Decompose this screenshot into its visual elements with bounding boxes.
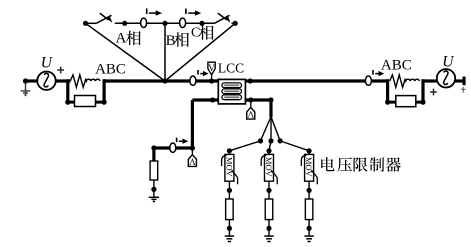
wire: left branch to resistor <box>152 148 155 161</box>
node: lower bus left of LCC <box>210 97 215 102</box>
current sensor CT5 (left branch) <box>170 143 176 152</box>
node: R2 ground node <box>151 187 156 192</box>
node: MOV2-resistor node <box>266 188 271 193</box>
current sensor CT2 (C-phase) <box>180 18 186 27</box>
node: lower bus V2 tap <box>248 97 253 102</box>
wire: B-phase fan lead <box>164 23 166 81</box>
svg-text:C: C <box>191 26 200 41</box>
node: MOV1-resistor node <box>227 188 232 193</box>
arrester MOV1 (metal-oxide varistor) <box>222 154 238 184</box>
arrester MOV3 (metal-oxide varistor) <box>301 154 317 184</box>
wire: lower bus left of LCC <box>192 98 218 101</box>
wire: lower bus right of LCC <box>245 98 271 101</box>
wire: source U1 to left node bar <box>56 79 71 82</box>
ac source U2 <box>437 69 455 87</box>
ground (left branch) <box>149 189 159 201</box>
LCC converter box <box>218 79 245 104</box>
svg-text:ABC: ABC <box>381 57 412 73</box>
wire: main bus left section <box>104 79 218 82</box>
ac source U1 <box>37 72 55 90</box>
node: branch 2 ground node <box>266 226 271 231</box>
node: left lower branch right corner <box>102 100 107 105</box>
node: lower bus right corner <box>268 97 273 102</box>
wire: MOV1 top stub <box>228 151 230 155</box>
wire: right node bar to source U2 <box>423 79 437 82</box>
switch S1 (A-phase) <box>96 13 112 23</box>
svg-text:LCC: LCC <box>218 61 244 76</box>
node: top line right end <box>233 21 238 26</box>
svg-text:A: A <box>116 31 127 47</box>
wire: diagonal to MOV3 <box>280 141 309 151</box>
voltage probe V3 (up, left branch) <box>188 150 196 167</box>
wire: diagonal to MOV1 <box>229 141 260 151</box>
wire: R5 to ground node <box>308 220 310 229</box>
node: top line after S1 <box>122 21 127 26</box>
node: branch 3 ground node <box>307 226 312 231</box>
wire: MOV3 top stub <box>308 151 310 155</box>
node: fan dot middle <box>268 138 273 143</box>
wire: node to R3 <box>228 190 230 199</box>
wire: MOV1 to node <box>228 181 230 190</box>
resistor R5 (branch 3) <box>305 199 313 220</box>
node: right lower branch left corner <box>385 100 390 105</box>
wire: left branch vertical drop <box>191 100 194 150</box>
svg-text:U: U <box>41 54 54 71</box>
current arrow label I (CT4) <box>373 70 384 76</box>
current arrow label I (CT3) <box>198 70 209 76</box>
ground mark (right edge, small) <box>461 87 466 93</box>
svg-text:V: V <box>189 155 196 165</box>
terminal bar (right edge) <box>463 77 466 86</box>
wire: R2 to ground dot <box>153 180 155 189</box>
ground (branch 3) <box>304 228 313 241</box>
current sensor CT3 (bus, before LCC) <box>190 76 196 85</box>
node: top line B tap <box>162 21 167 26</box>
wire: left branch horizontal <box>154 146 193 149</box>
wire: phase test line A segment <box>86 22 97 24</box>
wire: thick drop to arrester fan <box>269 100 272 117</box>
svg-text:B: B <box>166 33 176 49</box>
resistor R4 (branch 2) <box>265 199 273 220</box>
wire: main bus right section <box>245 79 387 82</box>
node: top line before S2 <box>199 21 204 26</box>
node bar: left impedance output <box>103 79 106 103</box>
wire: C-phase fan lead <box>165 23 235 81</box>
svg-text:U: U <box>442 53 455 70</box>
wire: bus from left ground dot to source U1 <box>26 79 39 82</box>
svg-text:ABC: ABC <box>95 61 126 77</box>
wire: MOV3 to node <box>308 181 310 190</box>
svg-text:MOV: MOV <box>304 157 313 177</box>
node: left lower branch left corner <box>65 100 70 105</box>
wire: node to R5 <box>308 190 310 199</box>
wire: right parallel lower branch <box>388 101 423 104</box>
ground (left edge, at source U1) <box>21 81 31 96</box>
LCC winding bar 1 <box>222 83 242 88</box>
node: MOV3 top node <box>307 148 312 153</box>
node bar: right impedance input <box>386 79 389 103</box>
current arrow label I (CT2) <box>186 9 201 16</box>
node: left branch T junction <box>190 145 195 150</box>
wire: source U2 to right terminal <box>455 79 464 82</box>
wire: left parallel lower branch <box>68 101 104 104</box>
resistor R3 (branch 1) <box>226 199 234 220</box>
node: top line left end <box>83 21 88 26</box>
polarity + (left source) <box>57 67 64 74</box>
voltage probe V2 (up, under lower bus) <box>247 102 255 120</box>
node: fan dot left <box>258 138 263 143</box>
LCC winding bar 2 <box>222 89 242 94</box>
node: fan dot right <box>278 138 283 143</box>
wire: node to R4 <box>268 190 270 199</box>
ground (branch 2) <box>264 228 273 241</box>
wire: MOV2 top stub <box>268 151 270 155</box>
current sensor CT4 (bus, right) <box>365 76 371 85</box>
resistor-inductor Zs2 (series R-L, top branch) <box>390 75 420 87</box>
node bar: left impedance input <box>66 79 69 103</box>
label 电压限制器 (voltage limiter) <box>321 157 401 172</box>
svg-text:V: V <box>247 108 254 118</box>
arrester MOV2 (metal-oxide varistor) <box>261 154 277 184</box>
ground (branch 1) <box>225 228 234 241</box>
resistor R1 (left parallel box) <box>75 96 96 107</box>
current arrow label I (CT5) <box>177 138 189 144</box>
node: MOV1 top node <box>227 148 232 153</box>
current sensor CT1 (A-phase) <box>141 18 147 27</box>
node: MOV2 top node <box>266 148 271 153</box>
wire: diagonal to MOV2 <box>269 141 271 151</box>
wire: phase test line middle segment <box>115 22 215 24</box>
wire: phase test line right segment <box>232 22 236 24</box>
svg-text:MOV: MOV <box>224 157 233 177</box>
wire: R4 to ground node <box>268 220 270 229</box>
wire: MOV2 to node <box>268 181 270 190</box>
wire: fan to left arrester dot <box>261 117 272 141</box>
resistor R6 (right parallel box) <box>396 96 416 107</box>
node: left ground tap <box>23 78 28 83</box>
svg-text:V: V <box>208 63 215 73</box>
switch S2 (C-phase) <box>214 13 230 23</box>
wire: A-phase fan lead <box>86 23 166 81</box>
node: bus junction of phase fan <box>162 78 167 83</box>
svg-text:MOV: MOV <box>264 157 273 177</box>
node: MOV3-resistor node <box>307 188 312 193</box>
LCC winding bar 3 <box>222 95 242 100</box>
resistor R2 (left branch) <box>150 161 158 180</box>
node: left branch corner <box>151 145 156 150</box>
node: branch 1 ground node <box>227 226 232 231</box>
polarity + (right source) <box>430 89 437 96</box>
node bar: right impedance output <box>421 79 424 103</box>
node: right lower branch right corner <box>420 100 425 105</box>
resistor-inductor Zs1 (series R-L, top branch) <box>70 75 100 87</box>
current arrow label I (CT1) <box>147 9 162 16</box>
voltage probe V1 (down, on bus) <box>208 62 215 79</box>
wire: fan to right arrester dot <box>271 117 280 141</box>
node: V1 tap on bus <box>209 78 214 83</box>
node: bus right of LCC <box>248 78 253 83</box>
wire: fan to middle arrester dot <box>270 117 272 141</box>
wire: R3 to ground node <box>228 220 230 229</box>
